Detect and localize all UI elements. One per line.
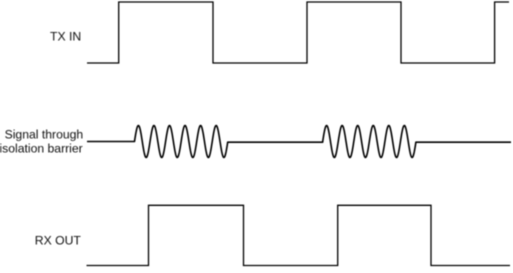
svg-text:TX IN: TX IN [50, 30, 81, 44]
svg-text:RX OUT: RX OUT [35, 234, 82, 248]
svg-text:Signal through: Signal through [5, 128, 84, 142]
svg-text:isolation barrier: isolation barrier [0, 142, 83, 156]
